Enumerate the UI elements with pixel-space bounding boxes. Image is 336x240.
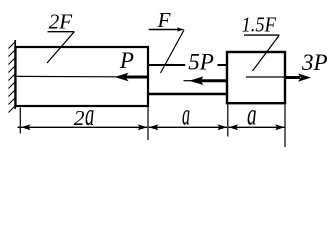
svg-text:2: 2: [74, 106, 85, 130]
wall hatching: [9, 42, 16, 113]
label 2a: [74, 97, 94, 132]
svg-text:3P: 3P: [301, 50, 328, 75]
svg-text:a: a: [247, 97, 257, 132]
leader F: [149, 27, 185, 73]
extension line at x=285: [284, 105, 286, 148]
svg-text:a: a: [182, 98, 190, 132]
extension line at x=228: [227, 105, 229, 137]
bar segment 2 (area F), top edge with gap for 5P label: [148, 65, 227, 94]
force 5P arrow: [184, 76, 227, 85]
bar segment 3 (area 1.5F): [227, 52, 285, 103]
dimension line a (right): [229, 124, 285, 130]
leader 1.5F: [244, 35, 279, 71]
svg-text:5P: 5P: [188, 50, 214, 75]
dimension line 2a: [18, 124, 148, 130]
extension line at x=148: [147, 106, 149, 140]
svg-text:F: F: [157, 8, 171, 32]
svg-text:1.5F: 1.5F: [242, 12, 277, 36]
bar segment 1 (area 2F): [16, 47, 149, 106]
svg-text:P: P: [119, 48, 134, 73]
svg-text:2F: 2F: [49, 10, 73, 34]
wall line: [14, 40, 16, 109]
force 3P arrow: [246, 73, 311, 81]
svg-text:a: a: [85, 97, 94, 132]
leader 2F: [47, 32, 74, 63]
extension line at wall: [19, 108, 21, 134]
force P arrow: [16, 73, 148, 82]
dimension line a (middle): [149, 124, 227, 130]
